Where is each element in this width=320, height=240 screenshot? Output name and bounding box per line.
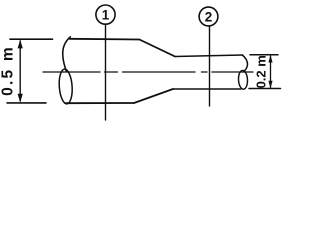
pipe top edge (large section) — [70, 38, 140, 41]
section label circle 1 — [96, 5, 115, 24]
pipe taper top edge — [139, 40, 175, 57]
dimension 0.5m down arrowhead — [18, 94, 23, 103]
svg-text:0.2 m: 0.2 m — [254, 55, 269, 88]
svg-text:1: 1 — [102, 7, 110, 22]
pipe top edge (small section) — [175, 55, 243, 57]
dimension 0.5m up arrowhead — [18, 40, 23, 49]
dimension 0.5m top extension line — [10, 38, 53, 40]
left pipe break upper arc — [63, 37, 71, 71]
centerline (dash-dot axis) — [43, 71, 253, 73]
dimension 0.5m dimension line — [19, 41, 21, 101]
dimension 0.2m dimension line — [270, 56, 272, 88]
svg-text:0.5 m: 0.5 m — [0, 45, 17, 96]
dimension 0.2m top extension line — [250, 54, 278, 56]
dimension 0.2m bottom extension line — [249, 88, 281, 90]
pipe bottom edge (large section) — [66, 102, 135, 104]
svg-text:2: 2 — [205, 9, 213, 24]
dimension 0.5m bottom extension line — [7, 102, 46, 104]
right pipe break loop — [238, 70, 248, 89]
right pipe break upper arc — [242, 55, 247, 72]
dimension 0.2m up arrowhead — [268, 55, 272, 63]
left pipe break loop — [58, 69, 73, 105]
section label circle 2 — [199, 7, 218, 26]
section line 1 — [105, 25, 107, 121]
pipe bottom edge (small section) — [173, 88, 241, 90]
dimension 0.2m down arrowhead — [268, 81, 272, 89]
pipe taper bottom edge — [134, 89, 173, 103]
section line 2 — [209, 26, 211, 106]
